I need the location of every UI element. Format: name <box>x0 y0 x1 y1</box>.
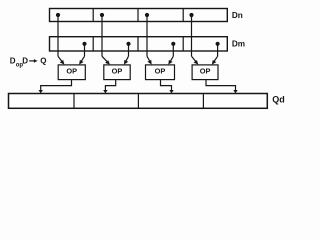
wire Dn[0] vertical <box>57 15 59 56</box>
wire Dm[2] vertical <box>172 44 174 57</box>
wire Dn[3] vertical <box>191 15 193 56</box>
wire OP3 output to Qd[2] <box>161 80 172 91</box>
wire Dn[1] vertical <box>101 15 103 56</box>
svg-text:Q: Q <box>40 57 46 66</box>
node Dm[0] tap <box>82 42 86 46</box>
wire Dn[2] diagonal into OP3 <box>147 56 150 62</box>
wire Dn[0] diagonal into OP1 <box>58 56 63 62</box>
wire Dm[1] diagonal into OP2 <box>125 56 128 62</box>
Qd cell divider 2 <box>137 94 139 109</box>
register Qd <box>9 94 268 109</box>
arrowhead Dm[0] into OP1 <box>79 60 83 65</box>
node Dn[3] tap <box>189 13 193 17</box>
svg-text:D: D <box>22 57 28 66</box>
arrowhead OP3 output into Qd[2] <box>169 90 173 93</box>
arrowhead Dn[1] into OP2 <box>105 60 110 64</box>
Dn cell divider 2 <box>137 9 139 22</box>
wire OP1 output to Qd[0] <box>41 80 72 91</box>
arrowhead Dm[1] into OP2 <box>124 60 128 65</box>
arrowhead OP4 output into Qd[3] <box>233 90 237 93</box>
Dn cell divider 3 <box>182 9 184 22</box>
svg-text:OP: OP <box>155 67 166 76</box>
wire Dm[1] vertical <box>128 44 130 57</box>
node Dm[2] tap <box>171 42 175 46</box>
register Dm <box>50 37 228 51</box>
arrowhead Dm[3] into OP4 <box>212 60 217 65</box>
wire OP4 output to Qd[3] <box>206 80 236 91</box>
OP unit 4 <box>192 65 218 80</box>
svg-text:Dm: Dm <box>232 39 245 48</box>
wire Dm[0] diagonal into OP1 <box>81 56 85 62</box>
Dm cell divider 1 <box>92 37 94 51</box>
wire Dm[3] vertical <box>217 44 219 57</box>
wire Dm[2] diagonal into OP3 <box>170 56 173 62</box>
arrowhead Dn[2] into OP3 <box>147 60 151 65</box>
node Dm[3] tap <box>216 42 220 46</box>
wire Dn[3] diagonal into OP4 <box>192 56 197 62</box>
register Dn <box>50 9 228 22</box>
Dm cell divider 3 <box>182 37 184 51</box>
node Dm[1] tap <box>126 42 130 46</box>
svg-text:Dn: Dn <box>232 11 243 20</box>
wire OP2 output to Qd[1] <box>105 80 115 91</box>
wire Dn[2] vertical <box>146 15 148 56</box>
node Dn[2] tap <box>145 13 149 17</box>
Dm cell divider 2 <box>137 37 139 51</box>
svg-text:OP: OP <box>112 67 123 76</box>
wire Dn[1] diagonal into OP2 <box>102 56 108 62</box>
formula D op D arrow Q <box>10 57 47 69</box>
arrowhead Dm[2] into OP3 <box>168 60 172 65</box>
arrowhead OP1 output into Qd[0] <box>39 90 43 93</box>
svg-text:OP: OP <box>66 67 77 76</box>
arrowhead Dn[0] into OP1 <box>60 60 65 65</box>
svg-text:Qd: Qd <box>272 95 285 105</box>
arrowhead OP2 output into Qd[1] <box>103 90 107 93</box>
wire Dm[3] diagonal into OP4 <box>214 56 218 62</box>
Qd cell divider 1 <box>73 94 75 109</box>
OP unit 1 <box>58 65 85 80</box>
node Dn[1] tap <box>100 13 104 17</box>
node Dn[0] tap <box>56 13 60 17</box>
Qd cell divider 3 <box>202 94 204 109</box>
arrowhead Dn[3] into OP4 <box>194 60 199 65</box>
OP unit 2 <box>104 65 130 80</box>
OP unit 3 <box>146 65 175 80</box>
wire Dm[0] vertical <box>84 44 86 57</box>
svg-text:OP: OP <box>200 67 211 76</box>
Dn cell divider 1 <box>92 9 94 22</box>
